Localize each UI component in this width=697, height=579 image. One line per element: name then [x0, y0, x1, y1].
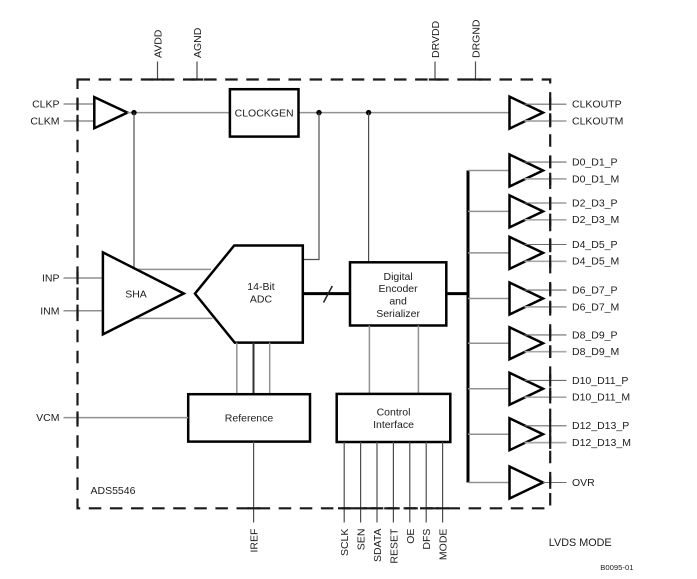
wire bus feed to buffer D2_D3	[468, 210, 510, 212]
pin IREF	[247, 442, 260, 553]
wire clock drop to encoder	[368, 113, 370, 262]
svg-text:CLKP: CLKP	[32, 99, 59, 111]
svg-text:D4_D5_P: D4_D5_P	[572, 239, 618, 251]
pin VCM	[36, 411, 188, 424]
amplifier SHA	[103, 252, 184, 334]
svg-text:LVDS MODE: LVDS MODE	[549, 537, 612, 549]
pin DRGND	[469, 19, 482, 81]
svg-text:DFS: DFS	[421, 529, 433, 550]
wire ADC to reference 3	[269, 343, 271, 395]
svg-text:D8_D9_M: D8_D9_M	[572, 346, 619, 358]
output buffer D6_D7	[510, 283, 544, 315]
pin RESET	[387, 442, 400, 564]
wire clock main horizontal	[127, 112, 509, 114]
block Reference	[188, 394, 310, 441]
svg-text:D0_D1_P: D0_D1_P	[572, 157, 618, 169]
pin DFS	[420, 442, 433, 550]
output buffer D0_D1	[510, 155, 544, 187]
svg-text:B0095-01: B0095-01	[600, 563, 633, 572]
pin CLKOUTM	[525, 115, 624, 128]
pin D10_D11_P	[525, 374, 629, 387]
pin D4_D5_M	[525, 255, 620, 268]
output buffer D4_D5	[510, 237, 544, 269]
svg-text:D2_D3_P: D2_D3_P	[572, 197, 618, 209]
pin D10_D11_M	[525, 391, 631, 404]
pin AGND	[191, 27, 204, 80]
block Control Interface	[337, 394, 451, 442]
node clock junction B	[316, 110, 321, 115]
svg-text:RESET: RESET	[388, 528, 400, 564]
svg-text:D10_D11_M: D10_D11_M	[572, 392, 630, 404]
svg-text:D12_D13_P: D12_D13_P	[572, 420, 629, 432]
wire bus feed to buffer OVR	[468, 482, 510, 484]
wire SHA to ADC M	[135, 317, 212, 319]
wire ADC to reference 2	[253, 343, 255, 395]
output buffer CLKOUT	[510, 97, 544, 129]
wire encoder to control 2	[417, 326, 419, 394]
pin CLKP	[32, 98, 94, 111]
pin D2_D3_P	[525, 197, 618, 210]
svg-text:INP: INP	[42, 273, 60, 285]
pin CLKOUTP	[525, 98, 622, 111]
pin SDATA	[371, 442, 384, 562]
wire bus feed to buffer D12_D13	[468, 433, 510, 435]
svg-text:D12_D13_M: D12_D13_M	[572, 437, 631, 449]
wire clock drop to ADC	[304, 113, 320, 260]
chip boundary dashed box	[78, 80, 551, 509]
svg-text:Encoder: Encoder	[379, 283, 419, 295]
pin AVDD	[151, 29, 164, 80]
svg-text:DRGND: DRGND	[471, 19, 483, 58]
svg-text:OE: OE	[405, 529, 417, 544]
pin D12_D13_P	[525, 420, 630, 433]
svg-text:AVDD: AVDD	[153, 29, 165, 58]
wire bus feed to buffer D8_D9	[468, 342, 510, 344]
node clock junction A	[131, 110, 136, 115]
svg-text:VCM: VCM	[36, 412, 59, 424]
pin D8_D9_P	[525, 329, 618, 342]
pin CLKM	[30, 115, 94, 128]
pin D8_D9_M	[525, 346, 620, 359]
svg-text:D6_D7_P: D6_D7_P	[572, 285, 618, 297]
svg-text:D4_D5_M: D4_D5_M	[572, 256, 619, 268]
svg-text:Reference: Reference	[225, 413, 274, 425]
node clock junction C	[366, 110, 371, 115]
block Digital Encoder and Serializer	[350, 262, 446, 325]
svg-text:SEN: SEN	[356, 529, 368, 551]
pin D6_D7_M	[525, 301, 620, 314]
svg-text:OVR: OVR	[572, 477, 595, 489]
svg-text:Digital: Digital	[384, 271, 413, 283]
svg-text:and: and	[389, 296, 407, 308]
block CLOCKGEN	[230, 89, 299, 136]
svg-text:D0_D1_M: D0_D1_M	[572, 173, 619, 185]
pin D6_D7_P	[525, 284, 618, 297]
svg-text:ADS5546: ADS5546	[91, 485, 136, 497]
pin INM	[40, 305, 102, 318]
output buffer D2_D3	[510, 195, 544, 227]
pin OVR	[543, 476, 595, 489]
wire bus feed to buffer D4_D5	[468, 252, 510, 254]
svg-text:D2_D3_M: D2_D3_M	[572, 214, 619, 226]
svg-text:CLKM: CLKM	[30, 116, 59, 128]
pin D2_D3_M	[525, 214, 620, 227]
svg-text:Serializer: Serializer	[376, 308, 420, 320]
svg-text:Interface: Interface	[373, 419, 414, 431]
svg-text:SDATA: SDATA	[372, 529, 384, 562]
bus width slash	[324, 286, 333, 303]
svg-text:DRVDD: DRVDD	[430, 20, 442, 58]
wire clock drop to SHA	[133, 113, 135, 268]
wire bus feed to buffer D0_D1	[468, 170, 510, 172]
wire ADC output bus to encoder	[303, 292, 350, 295]
pin MODE	[436, 442, 449, 560]
wire ADC to reference 1	[236, 343, 238, 395]
wire encoder to control 1	[368, 326, 370, 394]
wire output bus vertical	[467, 171, 470, 483]
svg-text:SCLK: SCLK	[339, 529, 351, 556]
pin INP	[42, 272, 103, 285]
svg-text:D6_D7_M: D6_D7_M	[572, 301, 619, 313]
pin D4_D5_P	[525, 238, 618, 251]
svg-text:CLOCKGEN: CLOCKGEN	[235, 107, 294, 119]
svg-text:INM: INM	[40, 305, 59, 317]
output buffer OVR	[510, 467, 544, 499]
clock input buffer	[94, 97, 127, 128]
block 14-Bit ADC	[195, 246, 303, 343]
wire SHA to ADC P	[136, 268, 211, 270]
svg-text:SHA: SHA	[125, 288, 147, 300]
pin SEN	[354, 442, 367, 550]
svg-text:Control: Control	[377, 407, 411, 419]
svg-text:IREF: IREF	[249, 529, 261, 553]
pin D0_D1_P	[525, 156, 618, 169]
wire encoder to output bus	[446, 292, 468, 295]
wire bus feed to buffer D6_D7	[468, 298, 510, 300]
output buffer D10_D11	[510, 373, 544, 405]
pin D0_D1_M	[525, 173, 620, 186]
svg-text:14-Bit: 14-Bit	[247, 281, 275, 293]
wire bus feed to buffer D10_D11	[468, 388, 510, 390]
svg-text:D8_D9_P: D8_D9_P	[572, 329, 618, 341]
output buffer D12_D13	[510, 418, 544, 450]
svg-text:AGND: AGND	[192, 27, 204, 58]
pin DRVDD	[429, 20, 442, 80]
pin D12_D13_M	[525, 436, 631, 449]
svg-text:ADC: ADC	[250, 294, 273, 306]
output buffer D8_D9	[510, 327, 544, 359]
pin SCLK	[338, 442, 351, 556]
svg-text:CLKOUTP: CLKOUTP	[572, 99, 622, 111]
pin OE	[404, 442, 417, 544]
svg-text:D10_D11_P: D10_D11_P	[572, 375, 628, 387]
svg-text:MODE: MODE	[438, 529, 450, 561]
svg-text:CLKOUTM: CLKOUTM	[572, 115, 623, 127]
